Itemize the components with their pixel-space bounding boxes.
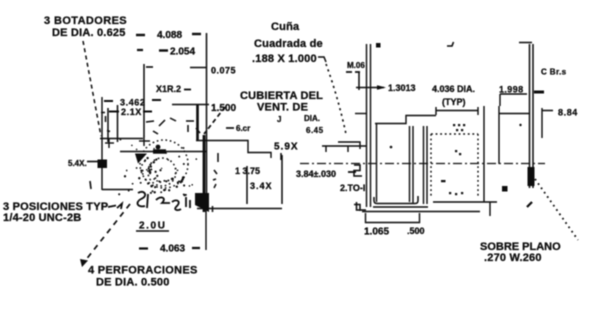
svg-text:5.9X: 5.9X bbox=[274, 142, 299, 153]
dimension 0.075 bbox=[190, 66, 236, 76]
front view noise dots bbox=[118, 139, 197, 196]
svg-text:3 BOTADORES: 3 BOTADORES bbox=[44, 15, 127, 27]
section view inner rect left bbox=[376, 123, 378, 202]
svg-text:3.4X: 3.4X bbox=[250, 181, 273, 191]
dimension 3.75 bbox=[235, 166, 260, 176]
svg-text:1/4-20 UNC-2B: 1/4-20 UNC-2B bbox=[3, 212, 81, 224]
extension line x=247 bbox=[246, 166, 248, 204]
svg-text:1 3.75: 1 3.75 bbox=[235, 166, 260, 176]
svg-text:1.065: 1.065 bbox=[364, 227, 389, 238]
svg-text:4.063: 4.063 bbox=[160, 244, 185, 255]
svg-text:C Br.s: C Br.s bbox=[541, 68, 567, 77]
leader text 6.62 bbox=[226, 124, 250, 133]
dimension 5.43 left bbox=[68, 159, 99, 168]
tall plate top hook bbox=[519, 42, 532, 44]
label 4.036 DIA (TYP) bbox=[432, 84, 475, 107]
dash after X1R.2 bbox=[184, 89, 191, 91]
small dot inner section bbox=[390, 146, 393, 149]
vertical x=499 bbox=[498, 106, 500, 164]
svg-text:VENT. DE: VENT. DE bbox=[257, 102, 308, 114]
svg-text:.500: .500 bbox=[407, 226, 425, 236]
small tick mark top middle bbox=[447, 42, 454, 46]
label C Br.s bbox=[541, 68, 567, 77]
section bottom long line bbox=[362, 211, 480, 213]
svg-text:6.cr: 6.cr bbox=[236, 124, 250, 133]
section view top step bbox=[375, 116, 436, 124]
extension line x=108 bbox=[107, 108, 109, 142]
dimension 3.462 bbox=[104, 98, 161, 108]
svg-text:0.075: 0.075 bbox=[211, 66, 236, 76]
left bracket lines near 3.84 bbox=[322, 146, 366, 152]
svg-text:4 PERFORACIONES: 4 PERFORACIONES bbox=[88, 265, 198, 277]
section view inner rect right double bbox=[410, 126, 414, 203]
svg-text:.270 W.260: .270 W.260 bbox=[484, 252, 542, 264]
bracket between views bbox=[483, 106, 485, 114]
svg-text:Cuña: Cuña bbox=[271, 21, 300, 33]
tall plate verticals bbox=[530, 44, 534, 188]
svg-text:2.054: 2.054 bbox=[170, 47, 195, 58]
tall plate dark blob bbox=[528, 167, 535, 186]
svg-text:3.84±.030: 3.84±.030 bbox=[296, 169, 336, 179]
svg-text:4.088: 4.088 bbox=[157, 30, 182, 41]
leader dashed from 3 BOTADORES to front view bbox=[83, 41, 101, 136]
leader dashed from Cuña to section view bbox=[326, 64, 346, 134]
dimension 1.500 bbox=[172, 103, 236, 114]
left hook bottom bbox=[357, 202, 367, 210]
svg-text:J: J bbox=[277, 115, 281, 124]
svg-text:DE DIA. 0.625: DE DIA. 0.625 bbox=[52, 27, 126, 39]
dimension 3.84±.030 bbox=[296, 169, 356, 179]
section bottom line 2 bbox=[373, 206, 428, 208]
label 3 POSICIONES TYP 1/4-20 UNC-2B bbox=[3, 201, 108, 224]
small tick left lower bbox=[90, 181, 91, 189]
svg-text:M.06: M.06 bbox=[347, 61, 365, 70]
svg-text:2.TO-I: 2.TO-I bbox=[340, 183, 365, 193]
leader arrow blob below centerline bbox=[135, 154, 147, 164]
arrow from 3 POSICIONES bbox=[108, 204, 122, 210]
right view right edge bbox=[483, 114, 485, 202]
section view right wall double bbox=[424, 126, 428, 204]
extension line vertical right x=206.5 bbox=[206, 33, 208, 209]
dimension 0.84 bbox=[542, 108, 578, 139]
svg-text:1.3013: 1.3013 bbox=[388, 83, 416, 93]
svg-text:.188 X 1.000: .188 X 1.000 bbox=[252, 53, 317, 65]
slanted mark on plate bbox=[527, 202, 532, 207]
leader dotted to SOBRE PLANO bbox=[535, 179, 578, 240]
dot at section top bbox=[376, 43, 381, 48]
dimension 2.054 bbox=[137, 47, 195, 58]
section view left wall double bbox=[367, 44, 371, 207]
dimension 1.998 bbox=[499, 85, 544, 107]
noise glyphs bottom of front view bbox=[138, 192, 190, 210]
svg-text:8.84: 8.84 bbox=[558, 108, 578, 118]
label: Cuña Cuadrada de .188 X 1.000 bbox=[252, 21, 323, 65]
leader dashed to 4 PERFORACIONES bbox=[80, 204, 130, 267]
horizontal y=113 bbox=[499, 113, 530, 115]
svg-text:3.462: 3.462 bbox=[120, 98, 146, 108]
label 2.TO-1 bbox=[340, 183, 365, 193]
front view bolt circle dotted bbox=[140, 140, 188, 188]
extension line x=282 bbox=[281, 155, 283, 204]
svg-text:(TYP): (TYP) bbox=[442, 97, 466, 107]
small hook at x=102 y=112 bbox=[101, 112, 105, 114]
label CUBIERTA DEL VENT. DE DIA. 6.45 bbox=[240, 90, 324, 135]
svg-text:5.4X.: 5.4X. bbox=[68, 159, 87, 168]
leader hook from 1.000 bbox=[318, 57, 326, 62]
small black square left of plate bbox=[502, 186, 508, 192]
dimension line above right view bbox=[436, 107, 478, 115]
label X1R.2 bbox=[156, 84, 181, 94]
right view bottom edge bbox=[433, 202, 497, 216]
front view bottom edge bbox=[102, 189, 133, 191]
dimension bracket 1.065 / .500 bbox=[364, 213, 425, 238]
extension vertical x=206 lower bbox=[205, 209, 207, 250]
front view right inner dark vertical bbox=[196, 105, 199, 141]
right view interior dots bbox=[441, 124, 465, 195]
extension line x=144 with tick bbox=[144, 64, 153, 137]
dimension 2.00 underlined bbox=[136, 221, 169, 232]
dimension 1.3013 bbox=[356, 83, 416, 93]
front view horizontal centerline with solid arrow bbox=[120, 149, 206, 153]
front view scattered marks upper band bbox=[146, 118, 200, 134]
leader dashed from CUBIERTA down-left bbox=[204, 107, 225, 134]
short vertical x=218 bbox=[217, 153, 219, 162]
tick marks left column bbox=[105, 116, 107, 122]
section cavity bottom bbox=[374, 196, 418, 204]
front view bottom-right corner blob bbox=[195, 193, 209, 212]
dimension 5.90 bbox=[274, 142, 299, 161]
top-right tab of front view bbox=[196, 141, 271, 159]
centerline dash-dot through views bbox=[300, 163, 545, 165]
label SOBRE PLANO .270 W.260 bbox=[480, 241, 561, 264]
svg-text:Cuadrada de: Cuadrada de bbox=[254, 38, 323, 50]
label .060 bbox=[346, 61, 365, 90]
label 4 PERFORACIONES DE DIA. 0.500 bbox=[88, 265, 198, 289]
right view hidden rect dotted bbox=[431, 134, 478, 198]
svg-text:CUBIERTA DEL: CUBIERTA DEL bbox=[240, 90, 323, 102]
front view top edge bbox=[100, 138, 143, 140]
small flange line left of wall bbox=[355, 113, 366, 115]
dimension 4.088 bbox=[136, 30, 201, 41]
bolt hole blob on left edge bbox=[98, 160, 108, 169]
label: 3 BOTADORES DE DIA. 0.625 bbox=[44, 15, 127, 39]
line y=208 bottom right of front view bbox=[197, 208, 282, 210]
svg-text:2.1X: 2.1X bbox=[121, 107, 142, 117]
dimension 3.44 bbox=[250, 181, 273, 191]
noise marks right of front view bbox=[213, 170, 217, 188]
svg-text:DE DIA. 0.500: DE DIA. 0.500 bbox=[96, 277, 170, 289]
extension line x=117.5 bbox=[117, 105, 119, 142]
front view right edge dark bbox=[203, 135, 206, 212]
svg-text:1.998: 1.998 bbox=[499, 85, 524, 95]
dimension 4.063 bbox=[139, 244, 200, 255]
svg-text:4.036 DIA.: 4.036 DIA. bbox=[432, 84, 475, 94]
svg-text:2.0U: 2.0U bbox=[139, 221, 167, 232]
front view cross marks on top edge bbox=[105, 136, 150, 148]
cross tick on bottom line bbox=[212, 206, 214, 212]
svg-text:X1R.2: X1R.2 bbox=[156, 84, 181, 94]
left wall step brackets bbox=[338, 142, 360, 149]
dimension 2.13 bbox=[109, 107, 152, 117]
svg-text:6.45: 6.45 bbox=[306, 126, 324, 135]
extension line x=102 left edge of front view bbox=[101, 97, 103, 190]
svg-text:DIA.: DIA. bbox=[304, 114, 320, 123]
